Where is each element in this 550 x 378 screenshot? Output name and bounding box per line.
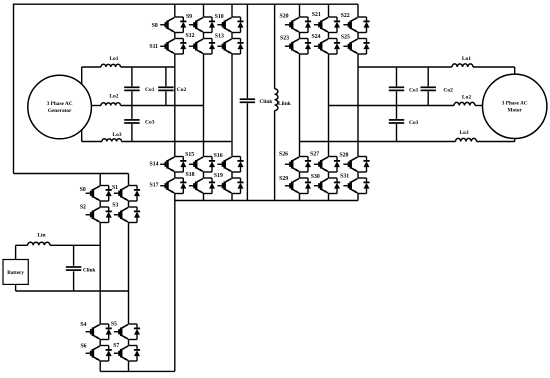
transistor S3 [114,207,140,223]
transistor S15 [189,157,215,173]
capacitor Co1 (generator-side filter) [131,67,133,86]
svg-text:Lo3: Lo3 [459,130,468,136]
wire leg3L bottom stub [231,194,233,201]
svg-text:Llink: Llink [278,101,292,107]
svg-text:Lo3: Lo3 [112,132,121,138]
svg-text:S17: S17 [149,183,158,189]
transistor S10 [217,17,243,33]
svg-text:S26: S26 [279,151,288,157]
capacitor Co2 (generator-side filter) [165,67,167,86]
svg-text:Lo1: Lo1 [462,56,471,62]
svg-text:S16: S16 [214,153,223,159]
transistor S9 [189,17,215,33]
svg-text:S7: S7 [113,343,119,349]
inductor Lo1 (generator-side filter) [101,64,121,67]
wire bleg1 top stub [99,174,101,186]
wire middle bottom rail [175,200,358,202]
wire leg1L top stub [174,4,176,17]
wire phase A to leg1 [121,66,175,68]
transistor S2 [86,207,112,223]
wire motor phase B segment [329,105,455,107]
wire phase C left segment [82,141,102,143]
wire battery plus stub [15,245,17,259]
wire leg3L mid gap [231,33,233,39]
transistor S27 [314,157,340,173]
inductor Lo3 (motor-side filter) [456,138,477,141]
wire leg2L long segment [203,54,205,157]
wire leg2R long segment [328,54,330,157]
transistor S25 [343,39,369,55]
wire leg1R mid gap [299,33,301,39]
wire leg1R lower gap [299,172,301,178]
transistor S13 [217,39,243,55]
svg-text:Clink: Clink [83,267,96,273]
wire bleg2 mid segment [128,223,130,325]
svg-text:Co3: Co3 [409,120,419,126]
transistor S16 [217,157,243,173]
wire bleg1 mid segment [99,223,101,325]
svg-text:S18: S18 [185,172,194,178]
transistor S28 [343,157,369,173]
wire bleg2 bottom stub [128,361,130,371]
svg-text:Co1: Co1 [409,88,419,94]
svg-text:S6: S6 [80,343,86,349]
svg-text:Motor: Motor [507,107,522,113]
transistor S4 [86,324,112,340]
wire battery-bank bottom rail [100,370,175,372]
wire top DC rail [14,3,359,5]
wire battery-bank top rail [14,173,129,175]
capacitor Co3 (motor-side filter) [396,106,398,119]
svg-text:S12: S12 [185,33,194,39]
svg-text:S9: S9 [186,14,192,20]
transistor S20 [285,17,311,33]
wire leg2R bottom stub [328,194,330,201]
wire bleg2 gap1 [128,201,130,207]
transistor S30 [314,178,340,194]
capacitor Co1 (motor-side filter) [396,67,398,86]
svg-text:S15: S15 [185,152,194,158]
transistor S18 [189,178,215,194]
svg-text:Lo2: Lo2 [462,95,471,101]
wire phase C to motor bottom [477,141,515,143]
svg-text:S21: S21 [312,12,321,18]
transistor S14 [160,157,186,173]
wire phase C to leg3 [122,141,233,143]
svg-text:Co2: Co2 [177,87,187,93]
inductor Lo2 (generator-side filter) [101,103,121,106]
wire leg1L lower gap [174,172,176,178]
svg-text:Clink: Clink [259,99,273,105]
transistor S22 [343,17,369,33]
wire leg1R bottom stub [299,194,301,201]
svg-text:S0: S0 [80,187,86,193]
wire leg3R long segment [357,54,359,157]
svg-text:S10: S10 [215,14,224,20]
svg-text:S2: S2 [80,205,86,211]
svg-text:S13: S13 [215,33,224,39]
svg-text:S23: S23 [280,35,289,41]
svg-text:S31: S31 [340,174,349,180]
wire motor phase C segment [300,141,456,143]
wire battery plus rail left [16,244,28,246]
wire leg3L long segment [231,54,233,157]
capacitor Clink (DC link) [246,4,248,98]
transistor S17 [160,178,186,194]
transistor S23 [285,39,311,55]
svg-text:S5: S5 [111,322,117,328]
transistor S6 [86,346,112,362]
capacitor Clink (battery) [73,245,75,265]
wire phase B to leg2 [121,105,204,107]
wire leg1L mid gap [174,33,176,39]
svg-text:S8: S8 [152,23,158,29]
wire leg3R bottom stub [357,194,359,201]
wire drop from bottom rail to battery bank [174,201,176,372]
wire battery plus rail right [50,244,100,246]
svg-text:Lo1: Lo1 [109,56,118,62]
svg-text:Battery: Battery [7,270,24,276]
svg-text:S3: S3 [112,203,118,209]
wire leg3R top stub [357,4,359,17]
wire leg3R lower gap [357,172,359,178]
svg-text:S22: S22 [341,13,350,19]
transistor S21 [314,17,340,33]
wire phase B to motor left [475,105,483,107]
wire leg1L bottom stub [174,194,176,201]
transistor S11 [160,39,186,55]
generator G1 (3 Phase AC Generator) [28,75,92,139]
svg-text:Lin: Lin [37,232,45,238]
wire leg2R mid gap [328,33,330,39]
wire leg1L long segment [174,54,176,157]
svg-text:S28: S28 [339,152,348,158]
svg-text:Generator: Generator [48,108,72,114]
transistor S8 [160,17,186,33]
inductor Lin [28,242,50,245]
battery BT1 [3,260,28,285]
transistor S12 [189,39,215,55]
wire motor phase A segment [358,66,452,68]
inductor Lo3 (generator-side filter) [102,139,122,142]
wire phase A left segment [82,66,101,68]
wire leg1R long segment [299,54,301,157]
transistor S1 [114,186,140,202]
wire leg2R top stub [328,4,330,17]
svg-text:Co1: Co1 [145,87,155,93]
wire bleg1 gap1 [99,201,101,207]
svg-text:S29: S29 [279,176,288,182]
svg-text:Lo2: Lo2 [109,94,118,100]
svg-text:S1: S1 [112,185,118,191]
svg-text:S11: S11 [149,44,158,50]
wire generator phase-A tap [81,67,83,85]
svg-text:S24: S24 [311,34,320,40]
transistor S26 [285,157,311,173]
svg-text:S20: S20 [279,13,288,19]
transistor S24 [314,39,340,55]
capacitor Co3 (generator-side filter) [131,106,133,119]
wire phase B from generator [91,105,101,107]
svg-text:Co3: Co3 [145,120,155,126]
svg-text:S14: S14 [149,162,158,168]
wire battery minus stub [15,284,17,291]
transistor S0 [86,186,112,202]
transistor S31 [343,178,369,194]
wire phase A to motor top [473,66,515,68]
wire leg3L lower gap [231,172,233,178]
svg-text:S25: S25 [341,34,350,40]
inductor Lo2 (motor-side filter) [454,102,475,105]
wire bleg2 top stub [128,174,130,186]
wire leg3L top stub [231,4,233,17]
wire leg2L lower gap [203,172,205,178]
motor M1 (3 Phase AC Motor) [483,74,547,138]
capacitor Co2 (motor-side filter) [427,67,429,86]
svg-text:S27: S27 [310,152,319,158]
wire bleg2 gap2 [128,340,130,346]
wire leg2L top stub [203,4,205,17]
transistor S19 [217,178,243,194]
wire leg3R mid gap [357,33,359,39]
transistor S5 [114,324,140,340]
wire left vertical (top rail to battery bank) [13,4,15,174]
inductor Lo1 (motor-side filter) [452,64,473,67]
wire leg2R lower gap [328,172,330,178]
wire bleg1 gap2 [99,340,101,346]
wire leg2L mid gap [203,33,205,39]
wire battery minus rail [16,290,129,292]
wire generator phase-C tap [81,129,83,141]
svg-text:S30: S30 [311,174,320,180]
wire leg1R top stub [299,4,301,17]
svg-text:S19: S19 [214,173,223,179]
svg-text:Co2: Co2 [443,88,453,94]
wire leg2L bottom stub [203,194,205,201]
inductor Llink (DC link) [274,4,276,89]
svg-text:S4: S4 [80,322,86,328]
wire bleg1 bottom stub [99,361,101,371]
svg-text:3 Phase AC: 3 Phase AC [502,100,528,106]
svg-text:3 Phase AC: 3 Phase AC [47,101,73,107]
transistor S7 [114,346,140,362]
transistor S29 [285,178,311,194]
